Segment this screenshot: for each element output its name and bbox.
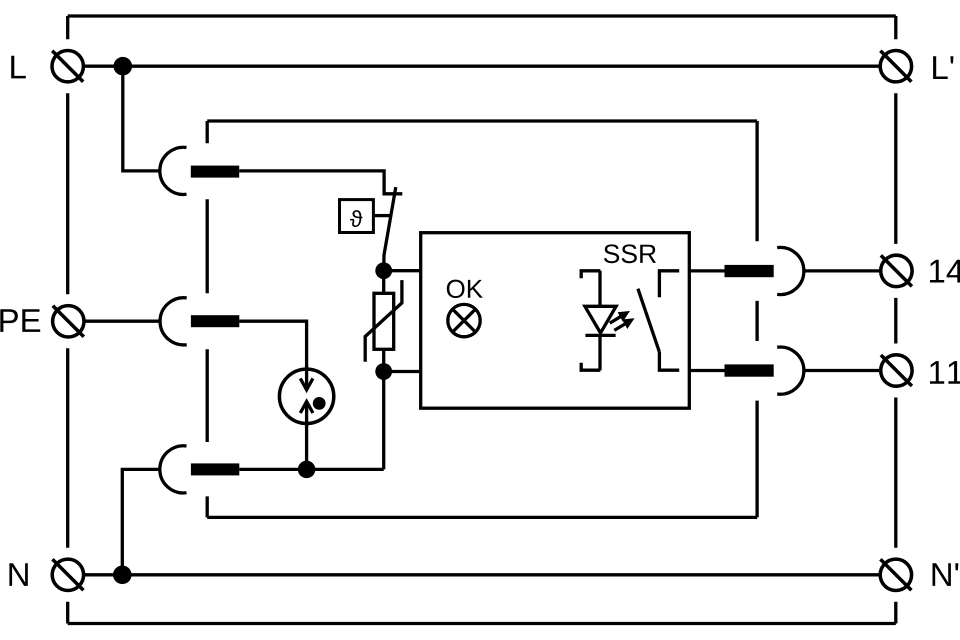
wire L junction down to plug contact 1	[123, 66, 162, 171]
LED emission arrow 1	[610, 316, 621, 323]
terminal N'	[880, 559, 911, 590]
plug contact 2 (PE, socket arc)	[160, 298, 187, 345]
SSR output switch blade	[638, 289, 660, 352]
wire contact 1 to thermal disconnector	[239, 171, 402, 194]
label L	[11, 56, 26, 79]
label OK	[447, 280, 483, 299]
LED emission arrow 2	[614, 324, 625, 331]
thermal sensor link to switch	[374, 214, 390, 217]
terminal PE	[53, 306, 84, 337]
wire SSR to plug contact 14	[689, 269, 724, 272]
plug contact 3 (N, socket arc)	[160, 446, 187, 493]
label 11	[930, 361, 960, 384]
opto module box (SSR)	[421, 233, 690, 409]
varistor RV	[382, 271, 385, 372]
SSR output switch bottom contact	[659, 352, 679, 370]
node L junction	[114, 57, 133, 76]
terminal N	[52, 559, 83, 590]
label L'	[933, 56, 953, 79]
LED D1 anode lead	[598, 271, 601, 307]
terminal L'	[880, 50, 911, 81]
LED D1 cathode lead	[598, 335, 601, 370]
LED D1 cathode bar	[585, 334, 615, 337]
wire node B down to N contact rail	[382, 372, 385, 470]
wire node A to opto box	[384, 269, 421, 272]
inner module box	[207, 121, 757, 517]
wire L to L'	[84, 65, 880, 68]
label SSR	[604, 244, 656, 263]
terminal 14	[881, 255, 912, 286]
plug contact 11 socket arc	[777, 347, 804, 394]
plug contact 3 pin	[191, 463, 239, 475]
label N	[9, 563, 27, 586]
node A (switch / varistor / opto input top)	[375, 262, 392, 279]
wire contact 14 to terminal 14	[803, 269, 881, 272]
wire N to N'	[84, 573, 880, 576]
LED D1 bottom pin bracket	[581, 363, 600, 371]
wire N junction up to plug contact 3	[122, 469, 161, 574]
plug contact 1 pin	[191, 166, 239, 178]
wire gas discharge tube to node C	[305, 424, 308, 469]
thermal sensor box	[340, 200, 374, 233]
plug contact 11 pin	[725, 364, 774, 376]
node N junction	[113, 566, 132, 585]
LED D1 top pin bracket	[581, 271, 600, 279]
SSR output switch top contact	[659, 271, 679, 298]
LED D1 triangle	[585, 306, 616, 333]
terminal L	[52, 50, 83, 81]
thermal disconnector switch blade	[384, 187, 396, 271]
label N'	[933, 563, 959, 586]
indicator lamp OK	[448, 304, 480, 336]
gas discharge tube (spark gap)	[279, 369, 333, 423]
plug contact 2 pin	[191, 315, 239, 327]
wire SSR to plug contact 11	[689, 369, 724, 372]
plug contact 14 pin	[725, 265, 774, 277]
wire node B to opto box	[384, 370, 421, 373]
node C (N rail junction)	[298, 461, 316, 479]
wire contact 11 to terminal 11	[803, 369, 881, 372]
wire PE to plug contact 2	[85, 320, 162, 323]
plug contact 1 (L phase, socket arc)	[160, 147, 187, 194]
label PE	[0, 309, 40, 332]
wire N contact rail	[239, 468, 383, 471]
thermal sensor symbol	[350, 210, 362, 227]
label 14	[930, 260, 960, 283]
plug contact 14 socket arc	[777, 247, 804, 294]
terminal 11	[881, 355, 912, 386]
wire PE contact to gas discharge tube	[239, 321, 306, 368]
node B (varistor bottom / opto input bottom)	[375, 363, 392, 380]
